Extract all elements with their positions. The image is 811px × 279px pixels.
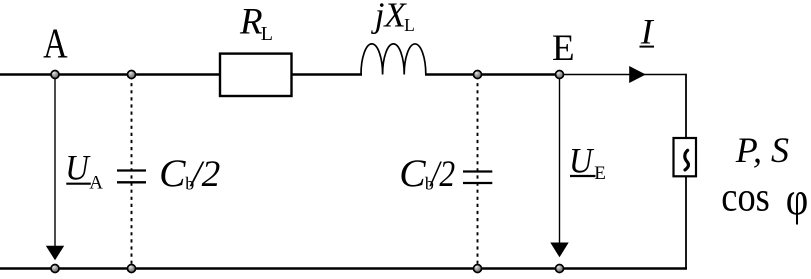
node ball E bottom bbox=[556, 265, 564, 273]
svg-text:/2: /2 bbox=[429, 153, 455, 194]
wire: top bus from resistor to inductor bbox=[291, 73, 363, 76]
load box (consumer) bbox=[674, 138, 697, 176]
capacitor Cb/2 left: dashed riser bbox=[131, 76, 133, 268]
node ball left capacitor bottom bbox=[128, 265, 136, 273]
svg-text:L: L bbox=[404, 15, 415, 35]
svg-text:A: A bbox=[43, 22, 68, 68]
svg-text:C: C bbox=[159, 151, 186, 195]
svg-text:C: C bbox=[399, 151, 426, 195]
wire: top bus from left edge to resistor bbox=[0, 73, 221, 76]
node ball right capacitor bottom bbox=[474, 265, 482, 273]
svg-text:cos: cos bbox=[721, 174, 770, 220]
voltage arrow U_E: head bbox=[550, 243, 568, 258]
voltage arrow U_A: head bbox=[46, 246, 64, 260]
wire: right vertical drop from load to bottom bus bbox=[685, 176, 687, 270]
svg-text:E: E bbox=[594, 163, 606, 184]
node ball right capacitor top bbox=[474, 71, 482, 79]
voltage arrow U_A: stem bbox=[54, 75, 56, 249]
node ball A bottom bbox=[51, 265, 59, 273]
svg-text:U: U bbox=[569, 141, 595, 181]
svg-text:L: L bbox=[261, 23, 273, 45]
svg-text:P, S: P, S bbox=[735, 130, 789, 170]
wire: top bus from inductor to node E bbox=[425, 73, 560, 76]
capacitor Cb/2 right: plates bbox=[463, 170, 492, 172]
voltage arrow U_E: stem bbox=[559, 75, 561, 245]
wire: thin line from node E to right corner (current branch) bbox=[560, 74, 687, 76]
capacitor Cb/2 left: plates bbox=[117, 169, 146, 171]
resistor R_L body bbox=[220, 54, 292, 96]
inductor jX_L coil bbox=[361, 44, 426, 75]
node ball A top bbox=[51, 71, 59, 79]
node ball E top bbox=[556, 71, 564, 79]
svg-text:I: I bbox=[640, 12, 655, 52]
svg-text:U: U bbox=[65, 148, 91, 188]
node ball left capacitor top bbox=[128, 71, 136, 79]
svg-text:φ: φ bbox=[786, 173, 809, 226]
wire: bottom bus bbox=[0, 267, 687, 269]
wire: right vertical drop from corner to load bbox=[685, 74, 687, 139]
svg-text:E: E bbox=[552, 28, 575, 69]
svg-text:R: R bbox=[239, 2, 263, 43]
load box squiggle bbox=[685, 150, 689, 170]
svg-text:/2: /2 bbox=[189, 153, 220, 194]
svg-text:jX: jX bbox=[371, 0, 408, 35]
svg-text:A: A bbox=[89, 172, 103, 193]
capacitor Cb/2 right: dashed riser bbox=[477, 76, 479, 268]
current arrow I: head on top wire bbox=[629, 66, 646, 83]
